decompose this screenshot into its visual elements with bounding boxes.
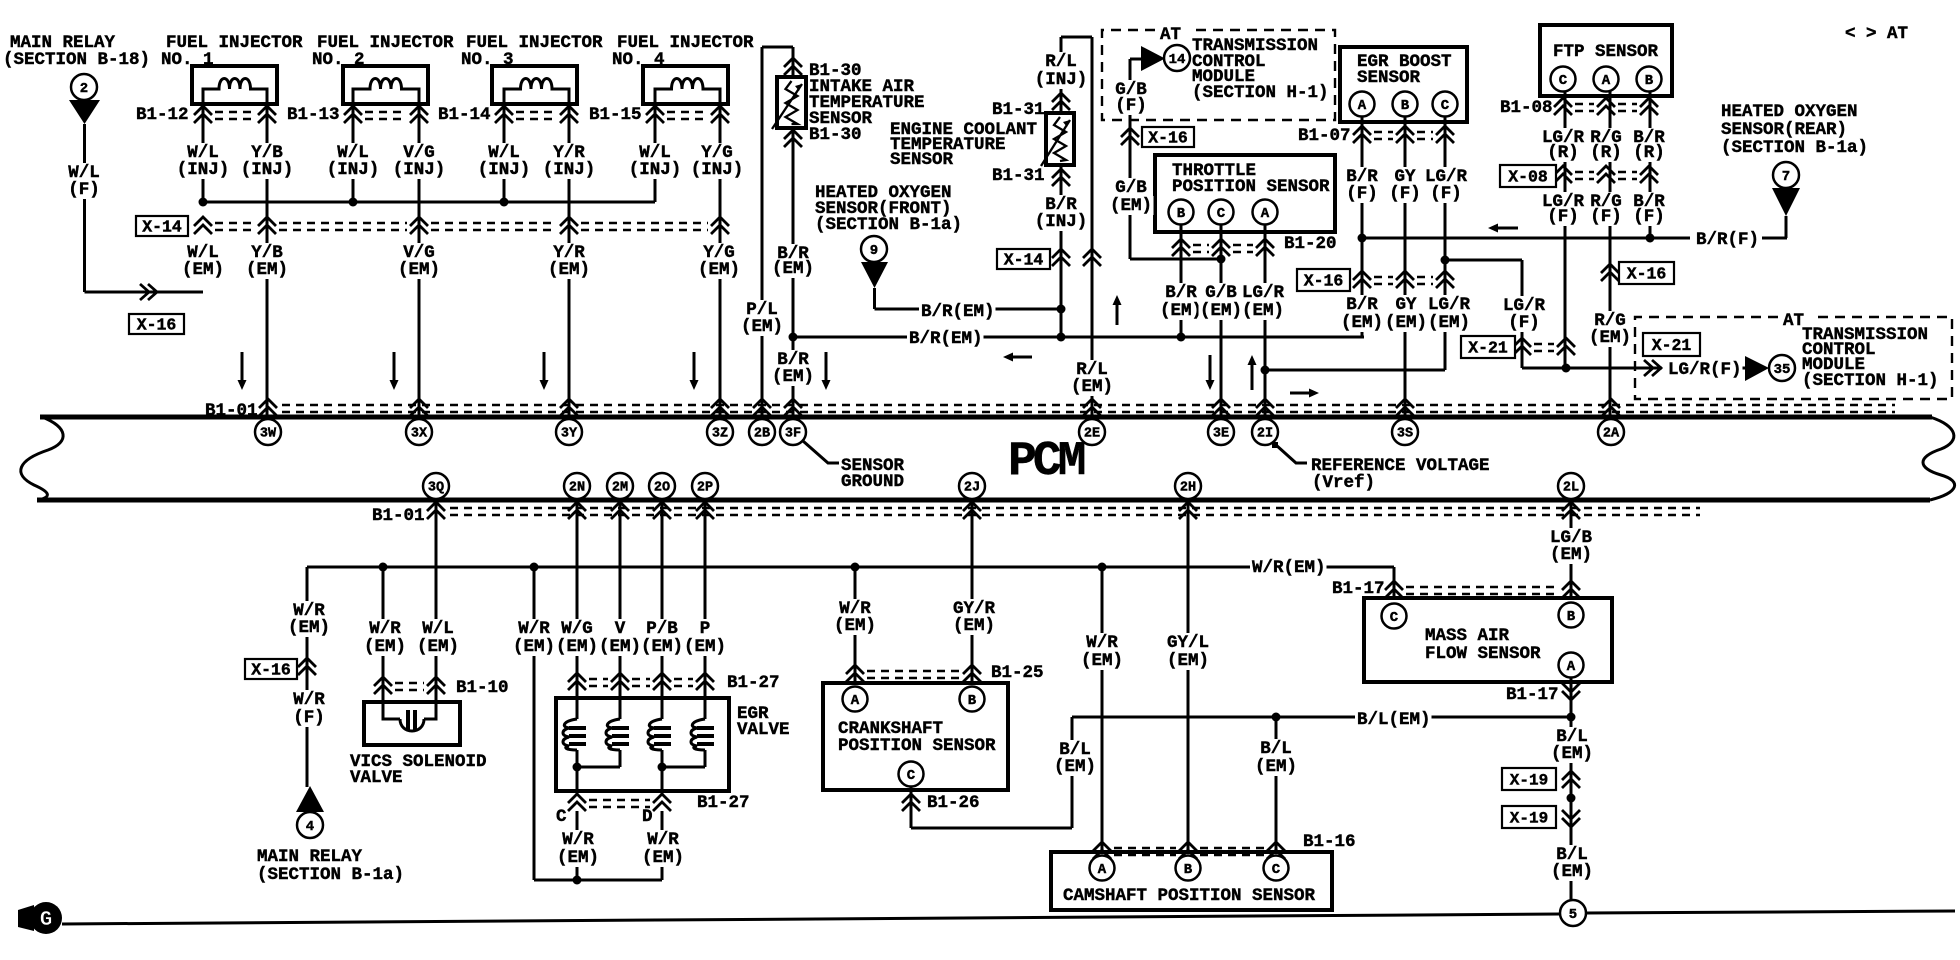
svg-text:SENSOR: SENSOR — [890, 150, 954, 170]
svg-text:(EM): (EM) — [1589, 328, 1631, 348]
direction arrow up — [1248, 355, 1257, 390]
svg-text:W/L: W/L — [422, 619, 454, 639]
label B1-20 — [1284, 234, 1337, 254]
label LG/R (EM) egr — [1427, 295, 1472, 315]
svg-text:GROUND: GROUND — [841, 472, 904, 492]
VICS solenoid valve box — [364, 702, 460, 745]
svg-text:NO. 1: NO. 1 — [161, 50, 214, 70]
label W/L (INJ) — [487, 143, 522, 163]
svg-text:FLOW SENSOR: FLOW SENSOR — [1425, 644, 1541, 664]
wire W/L(INJ) injector 3 — [503, 104, 506, 202]
wire W/R egr return branch — [533, 567, 536, 880]
PCM pin 2A — [1598, 419, 1624, 445]
FTP sensor label — [1553, 42, 1659, 62]
connector B1-15 label — [589, 105, 642, 125]
fuel injector NO. 1 label — [166, 33, 303, 53]
svg-text:CAMSHAFT POSITION SENSOR: CAMSHAFT POSITION SENSOR — [1063, 886, 1316, 906]
label B/R (EM) tps — [1164, 283, 1199, 303]
connector B1-01 label (bottom bus) — [372, 506, 425, 526]
label D pin — [642, 807, 653, 827]
TPS label — [1172, 161, 1256, 181]
label W/G (EM) — [560, 619, 595, 639]
junction egr return — [573, 876, 582, 885]
label V (EM) — [613, 619, 627, 639]
main relay arrow — [69, 100, 100, 124]
svg-text:B: B — [1184, 862, 1193, 878]
PCM pin 2H — [1175, 473, 1201, 499]
svg-text:14: 14 — [1169, 52, 1186, 68]
PCM pin 3E — [1208, 419, 1234, 445]
connector B1-30 chevron (top) — [784, 58, 802, 75]
svg-text:(EM): (EM) — [556, 637, 598, 657]
svg-text:VALVE: VALVE — [350, 768, 403, 788]
svg-text:W/G: W/G — [561, 619, 593, 639]
direction arrow right — [1290, 389, 1319, 398]
wire B/L(EM) line — [1072, 716, 1571, 719]
PCM pin 2I — [1252, 419, 1278, 445]
wire V 2M — [619, 499, 622, 719]
label R/G (EM) — [1593, 311, 1628, 331]
camshaft position sensor box — [1051, 852, 1332, 910]
svg-text:B1-27: B1-27 — [697, 793, 750, 813]
label LG/R(F) tcm — [1666, 360, 1743, 380]
IAT sensor labels — [809, 61, 862, 81]
label W/R (EM) cmp — [1085, 633, 1120, 653]
svg-text:A: A — [1602, 73, 1611, 89]
PCM pin 2N — [564, 473, 590, 499]
off-page ref 9 — [861, 236, 887, 262]
label P/L (EM) — [745, 300, 780, 320]
label G/B (F) — [1114, 80, 1149, 100]
wire G/B(EM) jog — [1130, 258, 1221, 261]
svg-text:X-16: X-16 — [1627, 265, 1667, 284]
reference voltage label — [1311, 456, 1490, 476]
svg-text:A: A — [1261, 206, 1270, 222]
svg-text:A: A — [851, 693, 860, 709]
VICS solenoid valve label — [350, 752, 487, 772]
label GY/L (EM) — [1166, 633, 1211, 653]
label W/R (EM) vics — [368, 619, 403, 639]
sensor ground label — [841, 456, 905, 476]
svg-text:(EM): (EM) — [698, 260, 740, 280]
junction G/B tps C — [1217, 255, 1226, 264]
svg-text:A: A — [1567, 659, 1576, 675]
svg-text:(F): (F) — [1115, 96, 1147, 116]
svg-text:C: C — [556, 807, 567, 827]
TPS pin A — [1253, 200, 1278, 225]
EGR valve coil — [563, 719, 577, 750]
svg-text:(EM): (EM) — [1341, 313, 1383, 333]
svg-text:2J: 2J — [964, 481, 980, 496]
svg-text:B/R(F): B/R(F) — [1696, 230, 1759, 250]
svg-text:(F): (F) — [1547, 207, 1579, 227]
svg-text:(EM): (EM) — [1242, 301, 1284, 321]
ECT sensor labels — [890, 120, 1037, 140]
svg-text:(R): (R) — [1547, 143, 1579, 163]
connector B1-01 dashed lines (top bus) — [282, 404, 1895, 407]
svg-text:(EM): (EM) — [834, 616, 876, 636]
svg-text:W/R: W/R — [647, 830, 679, 850]
off-page ref 2 (main relay) — [71, 74, 97, 100]
label LG/R (F) — [1541, 192, 1586, 212]
label B1-25 — [991, 663, 1044, 683]
svg-text:(EM): (EM) — [1071, 377, 1113, 397]
junction cmp supply — [1098, 563, 1107, 572]
wire Y/G(INJ) injector 4 — [719, 104, 722, 416]
label W/R (EM) egr supply — [517, 619, 552, 639]
fuel injector NO. 4 box — [643, 66, 728, 104]
svg-text:(INJ): (INJ) — [241, 160, 294, 180]
svg-text:D: D — [642, 807, 653, 827]
junction egr coil D — [658, 763, 667, 772]
svg-text:(SECTION B-1a): (SECTION B-1a) — [257, 865, 404, 885]
connector X-16 label box 2 — [1297, 269, 1350, 291]
svg-text:W/R(EM): W/R(EM) — [1252, 558, 1326, 578]
svg-text:(SECTION H-1): (SECTION H-1) — [1802, 371, 1939, 391]
label G/B (EM) tps — [1204, 283, 1239, 303]
junction B/R(EM) sensor ground — [789, 333, 798, 342]
svg-text:SENSOR: SENSOR — [1357, 68, 1421, 88]
label W/L (INJ) — [336, 143, 371, 163]
PCM pin 3Z — [707, 419, 733, 445]
wire W/G 2N — [576, 499, 579, 719]
label GY (F) egr — [1393, 167, 1417, 187]
wire GY/L from 2H — [1187, 499, 1190, 852]
direction arrow down — [822, 352, 831, 390]
fuel injector NO. 1 box — [192, 66, 277, 104]
svg-text:(INJ): (INJ) — [1035, 212, 1088, 232]
label B1-27 top — [727, 673, 780, 693]
connector X-08 chevrons — [1554, 166, 1658, 183]
label W/R (EM) relay — [292, 601, 327, 621]
connector X-21 inline chevrons — [1644, 360, 1661, 376]
fuel injector NO. 3 box — [492, 66, 577, 104]
svg-text:B1-31: B1-31 — [992, 166, 1045, 186]
label B/L (EM) maf — [1555, 727, 1590, 747]
wire ECT top stub — [1060, 85, 1063, 113]
svg-text:SENSOR(REAR): SENSOR(REAR) — [1721, 120, 1847, 140]
svg-text:(EM): (EM) — [1551, 744, 1593, 764]
main relay label — [10, 33, 116, 53]
direction arrow left — [1488, 224, 1518, 233]
svg-text:4: 4 — [306, 819, 314, 835]
label B/R(EM) inline2 — [907, 329, 984, 349]
MAF pin B — [1559, 603, 1584, 628]
svg-text:LG/R(F): LG/R(F) — [1668, 360, 1742, 380]
label B/L(EM) inline — [1355, 710, 1432, 730]
svg-text:(F): (F) — [1508, 313, 1540, 333]
wire LG/R(F) to TCM — [1522, 367, 1662, 370]
label R/G (F) — [1589, 192, 1624, 212]
PCM pin 2B — [749, 419, 775, 445]
label Y/G (INJ) — [700, 143, 735, 163]
connector X-08 label box — [1500, 165, 1556, 187]
EGR coil ties — [576, 750, 579, 794]
svg-text:W/R: W/R — [562, 830, 594, 850]
wire sensor ground bus — [793, 336, 1364, 339]
wire LG/R(EM) tps A — [1264, 224, 1267, 416]
svg-text:(EM): (EM) — [772, 367, 814, 387]
connector B1-14 label — [438, 105, 491, 125]
svg-text:VALVE: VALVE — [737, 720, 790, 740]
TPS pin B — [1169, 200, 1194, 225]
wire P 2P — [704, 499, 707, 719]
svg-text:2E: 2E — [1084, 427, 1100, 442]
svg-text:(EM): (EM) — [246, 260, 288, 280]
wire W/R cmp A — [1101, 567, 1104, 852]
fuel injector NO. 2 box — [343, 66, 428, 104]
svg-text:MASS AIR: MASS AIR — [1425, 626, 1510, 646]
label B/R (R) — [1632, 128, 1667, 148]
label B1-26 — [927, 793, 980, 813]
svg-text:(F): (F) — [1633, 207, 1665, 227]
label W/L (INJ) — [638, 143, 673, 163]
connector B1-31 chevron (bottom) — [1052, 169, 1070, 186]
connector X-16 chevron (G/B) — [1121, 128, 1139, 145]
PCM pin 2J — [959, 473, 985, 499]
svg-text:2M: 2M — [612, 481, 628, 496]
wire GY/R from 2J — [971, 499, 974, 683]
label Y/B (EM) — [250, 243, 285, 263]
wire Y/B(INJ) injector 1 — [266, 104, 269, 416]
connector X-21 label box 2 — [1643, 333, 1700, 356]
svg-text:3S: 3S — [1397, 427, 1413, 442]
svg-text:B: B — [1645, 73, 1654, 89]
PCM pin 3Q — [423, 473, 449, 499]
MAF label — [1425, 626, 1510, 646]
off-page ref 14 — [1164, 45, 1190, 71]
junction Vref — [1261, 366, 1270, 375]
label B1-27 bottom — [697, 793, 750, 813]
svg-text:POSITION SENSOR: POSITION SENSOR — [838, 736, 996, 756]
junction FTP LG/R — [1562, 364, 1571, 373]
wire G/B(EM) tps C — [1220, 224, 1223, 416]
label B/R (EM) egr — [1345, 295, 1380, 315]
PCM pin 2P — [692, 473, 718, 499]
svg-text:(EM): (EM) — [1081, 651, 1123, 671]
svg-text:X-19: X-19 — [1510, 772, 1548, 790]
connector X-14 label box — [136, 216, 188, 237]
svg-text:2N: 2N — [569, 481, 585, 496]
label Y/R (EM) — [552, 243, 587, 263]
svg-text:(EM): (EM) — [1551, 862, 1593, 882]
FTP pin B — [1637, 67, 1662, 92]
svg-text:GY/L: GY/L — [1167, 633, 1209, 653]
svg-text:(F): (F) — [1346, 184, 1378, 204]
wire injector supply bus — [203, 201, 655, 204]
connector B1-14 chevrons — [495, 106, 578, 123]
svg-text:(EM): (EM) — [1550, 545, 1592, 565]
svg-text:(INJ): (INJ) — [327, 160, 380, 180]
label B1-17 bottom — [1506, 685, 1559, 705]
heated O2 front arrow — [861, 262, 888, 288]
CMP pin C — [1264, 856, 1289, 881]
svg-text:7: 7 — [1782, 169, 1790, 185]
wire Vref line — [1265, 369, 1445, 372]
wire LG/R(F) stub — [1740, 367, 1746, 370]
wire B/L ckp C — [910, 786, 913, 828]
wire LG/B from 2L — [1570, 499, 1573, 598]
junction maf A — [1567, 713, 1576, 722]
PCM pin 2E — [1079, 419, 1105, 445]
svg-text:(EM): (EM) — [1110, 196, 1152, 216]
CKP pin C — [899, 762, 924, 787]
svg-text:W/R: W/R — [369, 619, 401, 639]
svg-text:B/R: B/R — [1165, 283, 1197, 303]
svg-text:9: 9 — [870, 243, 878, 259]
EGR valve label — [737, 704, 769, 724]
EGR boost sensor box — [1340, 47, 1467, 122]
svg-text:(EM): (EM) — [641, 637, 683, 657]
svg-text:AT: AT — [1160, 25, 1181, 45]
FTP sensor box — [1540, 25, 1672, 96]
CMP pin A — [1090, 856, 1115, 881]
main relay 4 arrow — [296, 786, 324, 812]
label Y/B (INJ) — [250, 143, 285, 163]
connector X-14 chevrons 2 — [1052, 249, 1070, 266]
label R/L (INJ) — [1044, 52, 1079, 72]
label AT (tcm right) — [1783, 311, 1804, 331]
svg-text:(INJ): (INJ) — [1035, 70, 1088, 90]
svg-text:(EM): (EM) — [557, 848, 599, 868]
svg-text:(F): (F) — [293, 708, 325, 728]
svg-text:LG/R: LG/R — [1428, 295, 1471, 315]
fuel injector NO. 1 coil — [203, 79, 267, 105]
connector B1-12 chevrons — [194, 106, 276, 123]
fuel injector NO. 3 label — [466, 33, 603, 53]
ground symbol G — [18, 905, 34, 931]
svg-text:(INJ): (INJ) — [691, 160, 744, 180]
svg-text:(F): (F) — [68, 180, 100, 200]
wire R/L(EM) to 2E — [1091, 37, 1094, 416]
svg-text:B1-15: B1-15 — [589, 105, 642, 125]
svg-text:X-21: X-21 — [1468, 339, 1508, 358]
label W/L (EM) vics — [421, 619, 456, 639]
svg-text:B: B — [1567, 609, 1576, 625]
svg-text:2P: 2P — [697, 481, 713, 496]
TCM top text — [1192, 36, 1318, 56]
connector B1-13 label — [287, 105, 340, 125]
label AT (tcm top) — [1160, 25, 1181, 45]
svg-text:3Y: 3Y — [561, 427, 578, 442]
svg-text:< > AT: < > AT — [1845, 24, 1908, 44]
label GY/R (EM) — [952, 599, 997, 619]
svg-text:(EM): (EM) — [1385, 313, 1427, 333]
svg-text:(R): (R) — [1633, 143, 1665, 163]
wire W/L(INJ) injector 2 — [352, 104, 355, 202]
connector X-19 chevron (bottom) — [1562, 810, 1580, 827]
svg-text:B1-01: B1-01 — [205, 401, 258, 421]
connector B1-01 dashed lines (bottom bus) — [450, 507, 1700, 510]
svg-text:(EM): (EM) — [548, 260, 590, 280]
wire B/R(INJ) from ECT — [1060, 165, 1063, 309]
wire LG/R egr boost C — [1444, 116, 1447, 370]
connector B1-10 chevrons — [374, 677, 445, 694]
svg-text:HEATED OXYGEN: HEATED OXYGEN — [1721, 102, 1858, 122]
connector X-21 chevrons — [1513, 338, 1575, 355]
svg-text:2O: 2O — [654, 481, 670, 496]
svg-text:(EM): (EM) — [364, 637, 406, 657]
svg-text:B/R(EM): B/R(EM) — [909, 329, 983, 349]
svg-text:PCM: PCM — [1008, 435, 1085, 489]
svg-text:C: C — [907, 768, 916, 784]
connector X-16 chevron (relay) — [298, 658, 316, 675]
wire W/R(EM) supply line — [307, 566, 1394, 569]
PCM pin 2L — [1558, 473, 1584, 499]
EGR boost pin B — [1393, 92, 1418, 117]
label W/L (INJ) — [186, 143, 221, 163]
connector X-16 inline chevrons — [140, 284, 157, 300]
svg-text:C: C — [1217, 206, 1226, 222]
wire W/L vics from 3Q — [435, 499, 438, 702]
wire B/R(F) ftp B — [1649, 91, 1652, 238]
connector B1-31 chevron (top) — [1052, 93, 1070, 110]
connector B1-15 chevrons — [646, 106, 729, 123]
svg-text:X-16: X-16 — [1148, 129, 1188, 148]
svg-text:X-14: X-14 — [1004, 251, 1044, 270]
svg-text:X-16: X-16 — [1304, 272, 1344, 291]
connector B1-13 chevrons — [344, 106, 428, 123]
EGR boost sensor label — [1357, 52, 1452, 72]
svg-text:B1-26: B1-26 — [927, 793, 980, 813]
wire Y/R(INJ) injector 3 — [568, 104, 571, 416]
wire ect-to-bus ground jog — [1060, 309, 1063, 337]
svg-text:3F: 3F — [785, 427, 801, 442]
label LG/R (R) — [1541, 128, 1586, 148]
label P/B (EM) — [645, 619, 680, 639]
svg-text:X-19: X-19 — [1510, 810, 1548, 828]
svg-text:NO. 4: NO. 4 — [612, 50, 665, 70]
svg-text:(INJ): (INJ) — [629, 160, 682, 180]
svg-text:2: 2 — [80, 81, 88, 97]
svg-text:B1-08: B1-08 — [1500, 98, 1553, 118]
junction B/R(F) ground — [1358, 234, 1367, 243]
CKP label — [838, 719, 943, 739]
label R/G (R) — [1589, 128, 1624, 148]
svg-text:(EM): (EM) — [398, 260, 440, 280]
svg-text:B1-20: B1-20 — [1284, 234, 1337, 254]
connector B1-17 chevron (bottom) — [1562, 683, 1580, 700]
svg-text:B/L: B/L — [1260, 739, 1292, 759]
connector B1-12 label — [136, 105, 189, 125]
svg-text:B1-07: B1-07 — [1298, 126, 1351, 146]
svg-text:5: 5 — [1569, 907, 1577, 923]
connector X-16 chevrons 2 — [1353, 271, 1454, 288]
svg-text:(EM): (EM) — [288, 618, 330, 638]
svg-text:B1-17: B1-17 — [1506, 685, 1559, 705]
junction egr supply — [530, 563, 539, 572]
svg-text:B/R: B/R — [1346, 295, 1378, 315]
svg-text:2B: 2B — [754, 427, 770, 442]
svg-text:V: V — [615, 619, 626, 639]
svg-text:B: B — [968, 693, 977, 709]
junction vics W/R — [379, 563, 388, 572]
label AT marker — [1845, 24, 1908, 44]
label G/B (EM) — [1114, 178, 1149, 198]
connector X-16 chevron (R/G) — [1601, 264, 1619, 281]
connector X-19 label box (top) — [1502, 768, 1556, 790]
wire W/R egr D return — [661, 811, 664, 880]
svg-text:C: C — [1441, 98, 1450, 114]
svg-text:C: C — [1390, 610, 1399, 626]
junction X-19 — [1567, 794, 1576, 803]
label P (EM) — [698, 619, 712, 639]
junction LG/R branch — [1441, 256, 1450, 265]
PCM left torn edge — [21, 417, 63, 500]
connector B1-26 chevron — [902, 794, 920, 811]
svg-text:(EM): (EM) — [1160, 301, 1202, 321]
label Y/R (INJ) — [552, 143, 587, 163]
